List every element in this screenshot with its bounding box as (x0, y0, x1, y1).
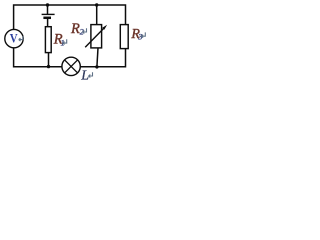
return mark after V (19, 36, 23, 41)
label R2 (70, 21, 87, 37)
label R3 (130, 27, 145, 42)
wire top rail with left rail upper (14, 5, 126, 29)
wire R1 bottom lead (48, 53, 50, 67)
voltmeter V (5, 29, 23, 47)
lamp L (62, 57, 80, 75)
node battery-top junction (46, 3, 49, 6)
node R2-top junction (95, 3, 98, 6)
resistor R3 (120, 25, 128, 49)
resistor R2 box (91, 25, 102, 48)
svg-text:L: L (80, 68, 89, 83)
wire left rail lower and bottom rail to lamp (14, 48, 62, 67)
resistor R1 (45, 27, 51, 53)
node R2-bottom junction (95, 65, 98, 68)
wire battery top lead (47, 5, 49, 14)
rheostat arrow R2 (85, 25, 107, 47)
label L (80, 68, 92, 83)
label R1 (53, 31, 67, 47)
node R1-bottom junction (47, 65, 50, 68)
wire battery to R1 (47, 19, 49, 27)
svg-text:R: R (70, 21, 80, 37)
wire R2 bottom lead (97, 48, 98, 67)
svg-text:V: V (10, 31, 18, 46)
wire R2 top lead (96, 5, 98, 25)
wire lamp to R3 bottom (80, 49, 125, 67)
battery cell (42, 14, 55, 17)
